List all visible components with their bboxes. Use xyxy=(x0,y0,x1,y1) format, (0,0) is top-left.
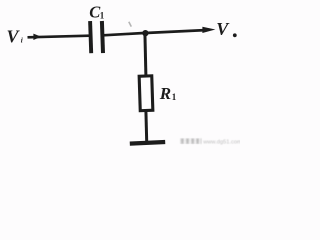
wire capacitor to junction xyxy=(103,33,146,35)
capacitor C1 right plate xyxy=(102,21,103,53)
svg-text:1: 1 xyxy=(172,92,177,102)
output arrowhead xyxy=(202,27,215,33)
svg-text:www.dg51.com: www.dg51.com xyxy=(202,139,240,145)
node junction dot xyxy=(142,30,148,36)
wire input segment xyxy=(28,36,90,38)
stray scan speck xyxy=(129,22,132,27)
capacitor C1 left plate xyxy=(90,21,91,53)
svg-text:1: 1 xyxy=(100,10,105,20)
ground bar xyxy=(130,142,165,144)
watermark xyxy=(180,138,242,145)
svg-text:R: R xyxy=(159,84,171,103)
label R1 xyxy=(159,84,177,103)
wire junction down to resistor xyxy=(145,33,146,77)
svg-text:V: V xyxy=(7,27,21,47)
wire junction to output xyxy=(145,30,205,33)
label Vi xyxy=(7,27,23,47)
svg-text:i: i xyxy=(21,36,23,44)
wire resistor to ground xyxy=(144,111,148,142)
label C1 xyxy=(89,3,105,22)
input arrowhead xyxy=(33,34,41,40)
label Vo xyxy=(216,19,236,39)
resistor R1 body xyxy=(139,76,153,111)
svg-text:V: V xyxy=(216,19,230,39)
